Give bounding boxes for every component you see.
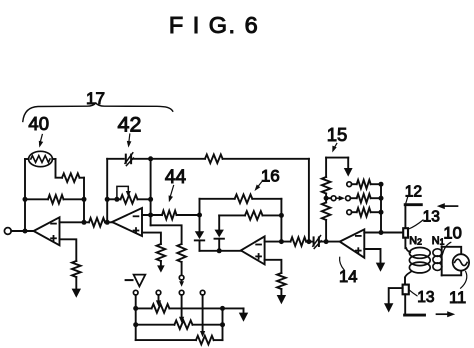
svg-text:N2: N2 (409, 235, 422, 247)
svg-text:14: 14 (339, 268, 357, 286)
svg-text:10: 10 (443, 225, 461, 243)
svg-text:N1: N1 (432, 235, 445, 247)
svg-text:11: 11 (449, 289, 466, 307)
svg-text:44: 44 (165, 167, 187, 188)
svg-text:42: 42 (118, 113, 142, 137)
svg-text:40: 40 (28, 113, 49, 134)
svg-text:13: 13 (417, 289, 434, 306)
svg-text:F I G. 6: F I G. 6 (169, 12, 259, 38)
svg-text:15: 15 (327, 124, 348, 145)
svg-text:17: 17 (86, 89, 105, 108)
svg-text:16: 16 (261, 166, 280, 185)
svg-text:13: 13 (423, 208, 440, 225)
